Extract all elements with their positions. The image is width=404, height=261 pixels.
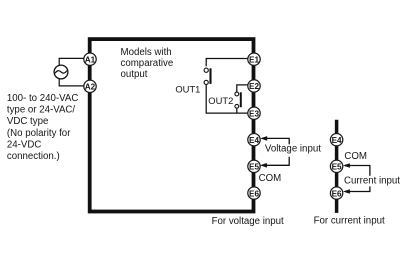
terminal E2 xyxy=(248,80,260,92)
svg-text:E4: E4 xyxy=(249,136,259,145)
svg-text:comparative: comparative xyxy=(121,58,174,69)
svg-text:100- to 240-VAC: 100- to 240-VAC xyxy=(7,93,78,104)
right separate input column line xyxy=(335,120,339,213)
controller outline box xyxy=(90,39,254,211)
terminal E3 xyxy=(248,107,260,119)
svg-text:COM: COM xyxy=(344,151,367,162)
wire E1 to OUT1 contact xyxy=(206,59,248,67)
svg-text:output: output xyxy=(121,69,148,80)
svg-text:E2: E2 xyxy=(249,82,259,91)
terminal E6 (current column) xyxy=(330,187,342,199)
switch OUT1 blade xyxy=(209,68,211,84)
svg-text:For voltage input: For voltage input xyxy=(212,216,284,227)
switch OUT2 top contact xyxy=(235,92,239,96)
svg-text:type or 24-VAC/: type or 24-VAC/ xyxy=(7,105,76,116)
svg-text:E3: E3 xyxy=(249,109,259,118)
svg-text:connection.): connection.) xyxy=(7,151,60,162)
bracket arrows: voltage input to E4/E5 xyxy=(262,138,289,165)
label Current input xyxy=(343,175,403,186)
svg-text:For current input: For current input xyxy=(314,216,385,227)
svg-text:E1: E1 xyxy=(249,55,259,64)
svg-text:E6: E6 xyxy=(249,189,259,198)
wire A1 to AC source xyxy=(59,58,84,65)
svg-text:Models with: Models with xyxy=(121,47,172,58)
svg-text:E5: E5 xyxy=(249,163,259,172)
terminal A1 xyxy=(84,53,96,65)
label: models note xyxy=(121,47,174,80)
terminal E5 xyxy=(248,160,260,172)
switch OUT2 bottom contact xyxy=(235,104,239,108)
terminal E4 (current column) xyxy=(330,134,342,146)
switch OUT1 top contact xyxy=(204,68,208,72)
terminal E6 xyxy=(248,187,260,199)
terminal A2 xyxy=(84,80,96,92)
terminal E4 xyxy=(248,134,260,146)
AC source sine wave xyxy=(55,71,67,74)
switch OUT2 blade xyxy=(240,92,242,107)
wire OUT2 contact to bottom wire xyxy=(236,108,238,113)
switch OUT1 bottom contact xyxy=(204,80,208,84)
label: power supply note xyxy=(7,93,78,162)
svg-text:A1: A1 xyxy=(85,55,96,64)
terminal E5 (current column) xyxy=(330,160,342,172)
svg-text:A2: A2 xyxy=(85,83,96,92)
wire AC source to A2 xyxy=(59,79,84,86)
svg-text:24-VDC: 24-VDC xyxy=(7,139,41,150)
wire OUT1 contact to E3 xyxy=(206,85,248,113)
AC source circle xyxy=(54,65,68,79)
svg-text:OUT2: OUT2 xyxy=(208,95,233,106)
svg-text:(No polarity for: (No polarity for xyxy=(7,128,71,139)
svg-text:E5: E5 xyxy=(332,163,342,172)
svg-text:Voltage input: Voltage input xyxy=(265,143,321,154)
svg-text:OUT1: OUT1 xyxy=(175,84,200,95)
label Voltage input xyxy=(264,143,323,156)
svg-text:E4: E4 xyxy=(332,136,342,145)
svg-text:VDC type: VDC type xyxy=(7,116,48,127)
svg-text:E6: E6 xyxy=(332,189,342,198)
svg-text:Current input: Current input xyxy=(344,175,400,186)
wire E2 to OUT2 contact xyxy=(237,85,248,92)
terminal E1 xyxy=(248,53,260,65)
svg-text:COM: COM xyxy=(259,173,282,184)
bracket arrows: current input to E5/E6 (right column) xyxy=(345,166,370,192)
